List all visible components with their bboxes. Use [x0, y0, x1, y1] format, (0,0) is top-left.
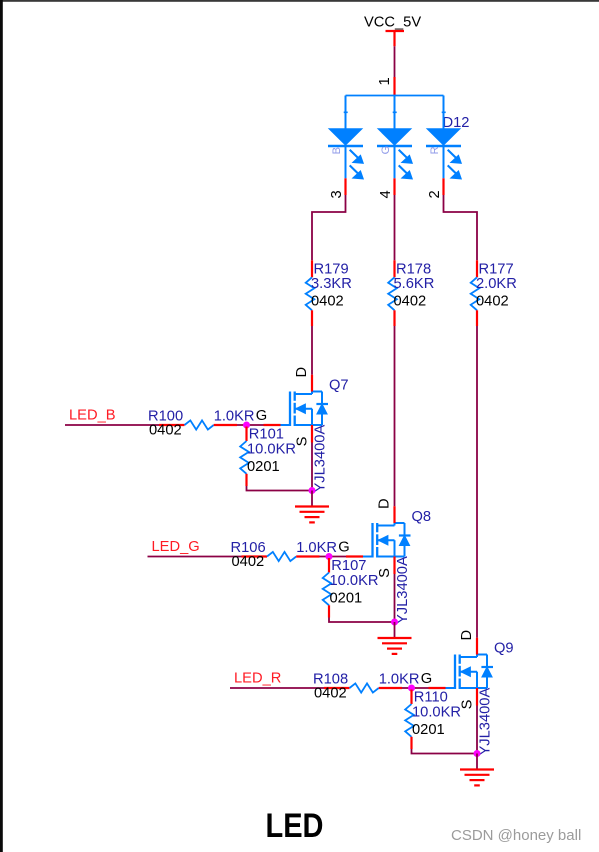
svg-text:D: D [376, 498, 392, 509]
svg-text:LED: LED [266, 807, 324, 845]
junction node Q8 gate [326, 553, 333, 560]
ground (Q8 source) [378, 622, 412, 654]
svg-text:LED_B: LED_B [69, 408, 116, 424]
svg-text:0402: 0402 [232, 554, 265, 570]
wire D12 pin 4 to R178 [394, 195, 396, 260]
svg-text:1: 1 [377, 77, 393, 85]
wire R179 to Q7 drain [311, 326, 313, 375]
wire R107 to Q8 source [329, 618, 395, 623]
svg-text:CSDN @honey ball: CSDN @honey ball [451, 827, 581, 844]
resistor R107 (gate pulldown) [323, 558, 332, 618]
transistor Q8 (NMOS) [346, 506, 411, 574]
svg-text:B: B [331, 147, 343, 154]
svg-text:0402: 0402 [314, 685, 347, 701]
junction node Q9 gate [408, 685, 415, 692]
LED D12 anode bus [344, 96, 446, 130]
wire Q7 source to ground [311, 443, 313, 491]
svg-text:G: G [256, 408, 267, 424]
svg-text:YJL3400A: YJL3400A [312, 425, 328, 493]
LED R element of D12 [426, 129, 461, 179]
svg-text:0201: 0201 [330, 591, 363, 607]
svg-text:0402: 0402 [311, 293, 344, 309]
svg-text:YJL3400A: YJL3400A [395, 556, 411, 624]
junction node Q7 source [309, 487, 316, 494]
resistor R108 [324, 683, 402, 692]
svg-text:Q8: Q8 [412, 509, 432, 525]
svg-text:R: R [429, 146, 441, 154]
svg-text:0201: 0201 [412, 722, 445, 738]
svg-text:5.6KR: 5.6KR [394, 276, 435, 292]
pin 1 of D12 (anode) [377, 77, 395, 96]
pin 3 of D12 (B cathode) [329, 178, 345, 198]
svg-text:YJL3400A: YJL3400A [477, 688, 493, 756]
wire Q8 source to ground [394, 574, 396, 622]
wire R108 to Q9 gate [402, 687, 429, 689]
LED G element of D12 [377, 129, 412, 179]
wire D12 pin 3 to R179 [312, 195, 346, 260]
svg-text:G: G [338, 540, 349, 556]
transistor Q7 (NMOS) [264, 375, 329, 443]
svg-text:R177: R177 [479, 262, 514, 278]
svg-text:3.3KR: 3.3KR [311, 276, 352, 292]
wire R106 to Q8 gate [320, 556, 347, 558]
resistor R106 [242, 552, 320, 561]
svg-text:0402: 0402 [394, 293, 427, 309]
pin 4 of D12 (G cathode) [378, 178, 394, 198]
junction node Q8 source [391, 619, 398, 626]
svg-text:D: D [459, 630, 475, 641]
svg-text:G: G [421, 671, 432, 687]
wire R110 to Q9 source [412, 749, 478, 754]
transistor Q9 (NMOS) [429, 638, 494, 706]
wire LED_G to R106 [148, 556, 242, 558]
resistor R177 [471, 260, 480, 326]
svg-text:0402: 0402 [476, 293, 509, 309]
svg-text:R101: R101 [249, 427, 284, 443]
wire VCC_5V to D12 pin 1 [394, 46, 396, 77]
wire R100 to Q7 gate [237, 424, 264, 426]
svg-text:VCC_5V: VCC_5V [364, 15, 421, 31]
resistor R178 [388, 260, 397, 326]
svg-text:3: 3 [329, 190, 345, 198]
svg-text:S: S [377, 568, 393, 578]
wire R101 to Q7 source [247, 486, 313, 491]
power symbol VCC_5V [364, 15, 421, 47]
resistor R179 [306, 260, 315, 326]
LED B element of D12 [328, 129, 363, 179]
wire Q9 source to ground [476, 706, 478, 754]
ground (Q7 source) [295, 491, 329, 523]
svg-text:LED_R: LED_R [234, 671, 281, 687]
svg-text:G: G [380, 146, 392, 155]
pin 2 of D12 (R cathode) [427, 178, 443, 198]
svg-text:0402: 0402 [149, 422, 182, 438]
wire D12 pin 2 to R177 [444, 195, 478, 260]
junction node Q7 gate [243, 422, 250, 429]
svg-text:R110: R110 [414, 690, 448, 706]
svg-text:R179: R179 [314, 262, 349, 278]
ground (Q9 source) [460, 754, 494, 786]
svg-text:D: D [294, 367, 310, 378]
wire LED_B to R100 [65, 424, 159, 426]
svg-text:Q9: Q9 [494, 641, 514, 657]
svg-text:2: 2 [427, 190, 443, 198]
svg-text:R107: R107 [331, 558, 366, 574]
junction node Q9 source [474, 750, 481, 757]
svg-text:2.0KR: 2.0KR [476, 276, 517, 292]
wire R178 to Q8 drain [394, 326, 396, 506]
svg-text:10.0KR: 10.0KR [412, 705, 461, 721]
svg-text:LED_G: LED_G [152, 539, 200, 555]
resistor R101 (gate pulldown) [240, 427, 249, 487]
svg-text:S: S [295, 436, 311, 446]
svg-text:10.0KR: 10.0KR [247, 442, 296, 458]
resistor R110 (gate pulldown) [405, 690, 414, 750]
svg-text:10.0KR: 10.0KR [330, 573, 379, 589]
svg-text:0201: 0201 [247, 459, 280, 475]
svg-text:4: 4 [378, 190, 394, 198]
svg-text:S: S [460, 699, 476, 709]
svg-text:Q7: Q7 [329, 378, 349, 394]
wire LED_R to R108 [230, 687, 324, 689]
wire R177 to Q9 drain [476, 326, 478, 638]
resistor R100 [159, 420, 237, 429]
svg-text:R178: R178 [396, 262, 431, 278]
